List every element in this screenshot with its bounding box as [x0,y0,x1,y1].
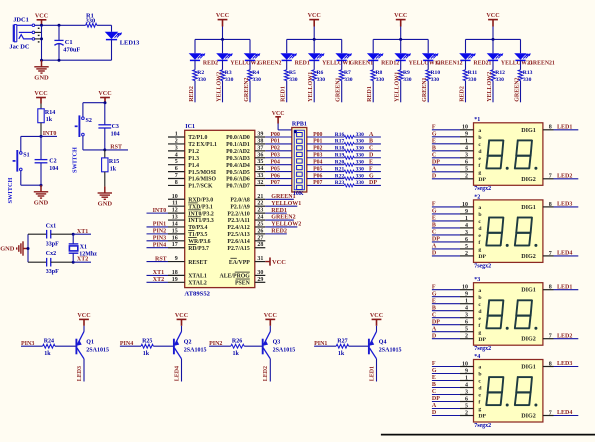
svg-text:4: 4 [465,306,468,312]
svg-text:C: C [432,312,436,318]
svg-text:4: 4 [465,382,468,388]
wire VCC bus [195,27,250,41]
svg-text:E: E [432,139,436,145]
svg-text:P1.7/SCK: P1.7/SCK [188,184,213,190]
crystal X1 [69,234,98,262]
svg-text:1k: 1k [233,351,240,357]
svg-text:PIN4: PIN4 [153,242,166,248]
resistor R17 [307,139,381,146]
svg-text:INT0: INT0 [153,208,167,214]
resistor R5 [285,60,298,102]
svg-text:GREEN2: GREEN2 [258,61,282,67]
svg-text:a: a [478,205,481,211]
transistor Q2 2SA1015 PNP [174,332,207,359]
svg-text:SWITCH: SWITCH [71,147,78,173]
svg-text:7segx2: 7segx2 [474,186,491,192]
LED YELLOW21 [487,39,533,66]
node LED3 DIG1 [543,202,578,208]
svg-text:g: g [478,330,481,336]
svg-text:RST: RST [155,256,167,262]
node LED4 DIG2 [543,251,578,257]
svg-text:g: g [478,407,481,413]
node GREEN1 net label [336,77,342,101]
svg-text:GREEN1: GREEN1 [350,61,374,67]
svg-text:P01: P01 [313,139,322,145]
svg-text:E: E [432,298,436,304]
svg-text:C: C [369,146,373,152]
svg-text:14: 14 [172,222,178,228]
svg-text:4: 4 [465,146,468,152]
svg-text:C1: C1 [65,39,73,46]
svg-text:B: B [432,146,436,152]
svg-text:5: 5 [465,244,468,250]
svg-text:P1.3: P1.3 [188,156,199,162]
svg-text:LED13: LED13 [120,40,140,47]
node PIN1 wire to IC [147,222,169,228]
svg-text:2SA1015: 2SA1015 [273,347,296,353]
svg-text:VCC: VCC [77,313,90,319]
LED YELLOW12 [394,39,440,66]
node RED1 net label [281,86,287,102]
svg-text:1: 1 [465,216,468,222]
svg-text:28: 28 [257,242,263,248]
transistor Q4 2SA1015 PNP [369,332,402,359]
node XT1 wire to IC [147,270,169,276]
node YELLOW2 net label [487,72,493,102]
svg-text:1k: 1k [110,166,117,172]
svg-text:104: 104 [49,166,58,172]
node RED2 [265,229,287,235]
LED RED2 [189,39,218,66]
svg-text:DP: DP [432,237,440,243]
svg-text:2: 2 [465,174,468,180]
svg-text:P02: P02 [271,146,280,152]
ground GND [0,241,28,255]
svg-text:LED4: LED4 [557,410,572,416]
svg-text:Q1: Q1 [86,340,94,346]
wire switch to ground rail [21,171,43,187]
node PIN4 [120,341,141,347]
svg-text:b: b [478,372,481,378]
resistor R16 [307,132,381,139]
svg-text:470uF: 470uF [63,47,80,54]
svg-text:330: 330 [431,77,440,83]
svg-text:1: 1 [465,299,468,305]
svg-text:A: A [432,244,437,250]
svg-text:LED4: LED4 [557,251,572,257]
svg-text:RED1: RED1 [367,86,373,102]
power VCC [175,313,188,326]
svg-text:Q2: Q2 [184,340,192,346]
svg-text:7: 7 [549,174,552,180]
resistor R10 [426,60,440,102]
svg-text:R23: R23 [335,180,345,186]
svg-text:S1: S1 [23,153,29,159]
svg-text:RD/P3.7: RD/P3.7 [188,246,209,252]
svg-text:19: 19 [172,277,178,283]
svg-text:104: 104 [111,132,120,138]
svg-text:5: 5 [175,159,178,165]
svg-text:G: G [432,291,437,297]
svg-text:P2.4/A12: P2.4/A12 [227,225,249,231]
svg-text:LED4: LED4 [174,366,180,381]
LED YELLOW1 [308,39,351,66]
svg-text:12: 12 [172,208,178,214]
svg-text:P05: P05 [313,166,322,172]
svg-text:2: 2 [465,410,468,416]
svg-text:R6: R6 [317,70,324,76]
wire segment nets F G E B C DP A D for *1 [432,125,474,180]
svg-text:R8: R8 [376,70,383,76]
capacitor Cx1 [28,223,73,247]
svg-text:4: 4 [175,152,178,158]
svg-text:R22: R22 [335,173,345,179]
svg-text:1k: 1k [46,117,53,123]
node LED3 [77,359,84,382]
svg-text:f: f [478,400,480,406]
node RED2 net label [189,86,195,102]
svg-text:330: 330 [403,77,412,83]
svg-text:GREEN2: GREEN2 [244,77,250,101]
svg-text:R5: R5 [289,70,296,76]
svg-text:GREEN21: GREEN21 [528,61,555,67]
svg-text:RESET: RESET [188,260,207,266]
svg-text:26: 26 [257,228,263,234]
svg-text:P1.6/MISO: P1.6/MISO [188,177,216,183]
resistor R22 [307,173,381,180]
svg-text:7segx2: 7segx2 [474,346,491,352]
svg-text:GREEN1: GREEN1 [336,77,342,101]
svg-text:GND: GND [34,74,49,81]
svg-text:DIG2: DIG2 [521,254,536,260]
svg-text:6: 6 [465,160,468,166]
svg-text:C: C [432,389,436,395]
svg-text:R15: R15 [109,159,119,165]
svg-text:R16: R16 [335,132,345,138]
svg-text:F: F [432,361,436,367]
svg-text:A: A [432,167,437,173]
svg-text:P0.0/AD0: P0.0/AD0 [226,135,250,141]
svg-text:P0.7/AD7: P0.7/AD7 [226,184,250,190]
svg-text:*1: *1 [474,117,480,123]
switch S1 [7,150,30,204]
svg-text:GREEN2: GREEN2 [515,77,521,101]
svg-text:f: f [478,163,480,169]
svg-text:P0.1/AD1: P0.1/AD1 [226,142,250,148]
svg-text:R13: R13 [523,70,533,76]
power VCC [272,111,285,124]
svg-text:VCC: VCC [272,259,286,266]
svg-text:RED2: RED2 [271,229,287,235]
svg-text:P03: P03 [271,153,280,159]
svg-text:GND: GND [34,199,49,206]
svg-text:3: 3 [175,145,178,151]
svg-text:330: 330 [356,132,365,138]
svg-text:2SA1015: 2SA1015 [86,347,109,353]
svg-text:6: 6 [465,320,468,326]
svg-text:YELLOW2: YELLOW2 [487,72,493,102]
svg-text:330: 330 [253,77,262,83]
svg-text:PIN2: PIN2 [153,229,166,235]
svg-text:DP: DP [478,177,486,183]
svg-text:GREEN1: GREEN1 [422,77,428,101]
svg-text:P2.6/A14: P2.6/A14 [227,239,249,245]
svg-text:330: 330 [356,173,365,179]
node XT1 [72,229,91,236]
resistor R2 [193,60,206,102]
svg-text:33pF: 33pF [46,269,59,275]
svg-text:330: 330 [356,139,365,145]
svg-text:330: 330 [356,166,365,172]
wire jack to ground rail [35,25,43,60]
LED GREEN21 [514,39,555,66]
svg-text:YELLOW1: YELLOW1 [308,72,314,102]
svg-text:P00: P00 [313,132,322,138]
wire P03 to RPB1 [265,153,292,159]
svg-text:11: 11 [172,201,178,207]
resistor R21 [307,166,381,173]
svg-text:b: b [478,212,481,218]
svg-text:1k: 1k [338,351,345,357]
svg-text:P2.3/A11: P2.3/A11 [228,218,250,224]
svg-text:35: 35 [257,159,263,165]
svg-text:39: 39 [257,132,263,138]
svg-text:a: a [478,128,481,134]
svg-text:E: E [432,375,436,381]
svg-text:YELLOW2: YELLOW2 [217,72,223,102]
svg-text:3: 3 [465,389,468,395]
wire P05 to RPB1 [265,166,292,172]
svg-text:3: 3 [465,313,468,319]
power VCC [98,91,111,103]
svg-text:RST: RST [110,145,122,151]
svg-text:VCC: VCC [394,13,407,19]
svg-text:A: A [432,403,437,409]
wire switch to RST rail [83,136,105,150]
svg-text:R21: R21 [335,166,345,172]
svg-text:R26: R26 [232,339,242,345]
svg-text:P0.6/AD6: P0.6/AD6 [226,177,250,183]
svg-text:P1.5/MOSI: P1.5/MOSI [188,170,217,176]
svg-text:F: F [369,166,373,172]
power VCC [308,13,321,26]
svg-text:P2.1/A9: P2.1/A9 [230,204,250,210]
wire VCC bus [373,27,428,41]
svg-text:5: 5 [465,403,468,409]
svg-text:VCC: VCC [264,313,277,319]
svg-text:P0.4/AD4: P0.4/AD4 [226,163,250,169]
resistor R4 [248,60,261,102]
svg-text:LED2: LED2 [263,366,269,381]
wire top bus [35,24,112,27]
svg-text:R4: R4 [252,70,259,76]
svg-text:33pF: 33pF [46,242,59,248]
svg-text:6: 6 [465,396,468,402]
svg-text:R10: R10 [431,70,441,76]
node PIN1 [314,341,336,347]
svg-text:R11: R11 [468,70,478,76]
node YELLOW1 net label [395,72,401,102]
wire P06 to RPB1 [265,173,292,179]
svg-text:C: C [432,153,436,159]
svg-text:330: 330 [356,153,365,159]
ground GND [98,186,113,207]
power VCC [216,13,229,26]
node GREEN1 [265,194,295,200]
LED GREEN2 [244,39,282,66]
node INT0 wire to IC [147,208,169,214]
node LED3 DIG1 [543,361,578,367]
node YELLOW1 net label [308,72,314,102]
svg-text:GREEN2: GREEN2 [271,215,295,221]
svg-text:7: 7 [549,410,552,416]
resistor R13 [518,60,532,102]
ground GND [34,60,49,81]
svg-text:RED2: RED2 [203,61,218,67]
svg-text:3: 3 [465,230,468,236]
svg-text:D: D [432,333,437,339]
svg-text:10: 10 [462,361,468,367]
svg-text:34: 34 [257,166,263,172]
svg-text:R7: R7 [344,70,351,76]
svg-text:8: 8 [549,202,552,208]
svg-text:9: 9 [465,209,468,215]
svg-text:32: 32 [257,180,263,186]
svg-text:AT89S52: AT89S52 [184,291,210,298]
svg-text:21: 21 [257,194,263,200]
node LED1 DIG1 [543,125,578,131]
svg-text:X1: X1 [80,245,87,251]
svg-text:330: 330 [356,160,365,166]
node YELLOW2 [265,222,301,228]
svg-text:RED2: RED2 [460,86,466,102]
svg-text:P2.7/A15: P2.7/A15 [227,246,249,252]
svg-text:10: 10 [172,194,178,200]
node junction [40,24,43,27]
svg-text:D: D [432,251,437,257]
svg-text:3: 3 [465,153,468,159]
LED GREEN1 [335,39,373,66]
node YELLOW2 net label [217,72,223,102]
svg-text:R17: R17 [335,139,345,145]
node INT0 [40,131,58,138]
switch S2 [71,115,92,173]
svg-text:GND: GND [98,201,113,208]
svg-text:10: 10 [462,285,468,291]
svg-text:18: 18 [172,270,178,276]
svg-text:E: E [369,160,373,166]
resistor R23 [307,180,381,187]
LED RED21 [459,39,491,66]
svg-text:VCC: VCC [34,91,47,97]
svg-text:36: 36 [257,152,263,158]
ground GND [34,185,49,206]
svg-text:PIN3: PIN3 [153,236,166,242]
wire left rail [27,234,30,262]
capacitor C1 [54,25,80,60]
node RED2 net label [460,86,466,102]
svg-text:7segx2: 7segx2 [474,263,491,269]
svg-text:P06: P06 [313,173,322,179]
resistor R14 [38,104,55,137]
svg-text:9: 9 [175,256,178,262]
node XT2 wire to IC [147,277,169,283]
svg-text:YELLOW1: YELLOW1 [322,61,351,67]
svg-text:P05: P05 [271,166,280,172]
svg-text:C2: C2 [49,159,56,165]
svg-text:B: B [432,223,436,229]
svg-text:P1.4: P1.4 [188,163,199,169]
resistor R15 [102,150,120,187]
svg-text:GREEN12: GREEN12 [436,61,463,67]
svg-text:LED3: LED3 [557,361,572,367]
svg-text:P2.0/A8: P2.0/A8 [230,198,250,204]
node PIN2 [209,341,231,347]
display *2 7segx2 [474,194,543,269]
node GREEN1 net label [422,77,428,101]
svg-text:P02: P02 [313,146,322,152]
svg-text:*3: *3 [474,277,480,283]
svg-text:B: B [432,382,436,388]
svg-text:S2: S2 [86,118,92,124]
svg-text:DP: DP [432,319,440,325]
svg-text:10: 10 [462,202,468,208]
resistor R12 [491,60,505,102]
svg-text:LED3: LED3 [77,366,83,381]
svg-text:RED1: RED1 [295,61,310,67]
svg-text:g: g [478,170,481,176]
svg-text:31: 31 [257,256,263,262]
wire P02 to RPB1 [265,146,292,152]
svg-text:8: 8 [549,125,552,131]
node LED1 [369,359,376,382]
svg-text:Cx1: Cx1 [46,223,56,229]
svg-text:R20: R20 [335,160,345,166]
svg-text:D: D [432,174,437,180]
svg-text:DP: DP [432,160,440,166]
svg-text:P03: P03 [313,153,322,159]
svg-text:R2: R2 [197,70,204,76]
svg-text:330: 330 [376,77,385,83]
svg-text:f: f [478,240,480,246]
power jack JDC1 [9,17,39,51]
display *1 7segx2 [474,117,543,192]
svg-text:330: 330 [225,77,234,83]
transistor Q3 2SA1015 PNP [263,332,296,359]
svg-text:F: F [432,125,436,131]
svg-text:1k: 1k [44,351,51,357]
svg-text:IC1: IC1 [185,124,195,130]
svg-text:7segx2: 7segx2 [474,423,491,429]
svg-text:INT0: INT0 [43,131,57,137]
svg-text:SWITCH: SWITCH [7,178,14,204]
wire VCC to RPB1 [278,124,292,130]
svg-text:LED2: LED2 [557,174,572,180]
node PIN4 wire to IC [147,242,169,248]
wire P04 to RPB1 [265,160,292,166]
svg-text:10: 10 [462,125,468,131]
resistor R19 [307,153,381,160]
svg-text:G: G [369,173,374,179]
svg-text:DIG1: DIG1 [521,205,536,211]
svg-text:DIG2: DIG2 [521,414,536,420]
resistor network RPB1 10K [292,122,307,198]
LED RED1 [280,39,309,66]
node LED2 DIG2 [543,174,578,180]
svg-text:DP: DP [478,337,486,343]
svg-text:LED1: LED1 [557,125,572,131]
svg-text:Cx2: Cx2 [46,251,56,257]
